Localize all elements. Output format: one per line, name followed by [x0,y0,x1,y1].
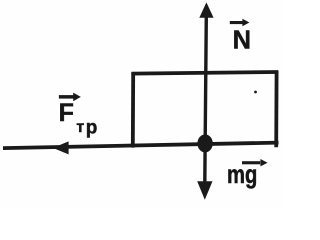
svg-text:т: т [76,119,84,136]
svg-text:F: F [59,99,74,127]
svg-text:р: р [86,117,98,138]
svg-text:N: N [233,26,251,54]
svg-text:mg: mg [227,159,257,188]
